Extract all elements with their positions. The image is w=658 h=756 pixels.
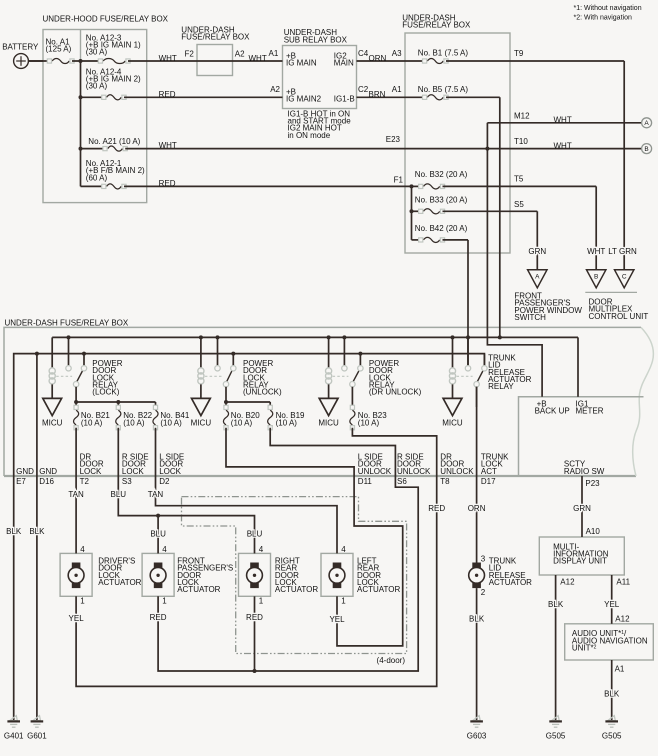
- svg-text:UNLOCK: UNLOCK: [397, 467, 431, 476]
- svg-text:WHT: WHT: [554, 116, 572, 125]
- svg-text:FUSE/RELAY BOX: FUSE/RELAY BOX: [402, 21, 471, 30]
- svg-text:A12: A12: [560, 578, 575, 587]
- svg-text:G505: G505: [602, 732, 622, 741]
- svg-text:No. B1 (7.5 A): No. B1 (7.5 A): [418, 49, 469, 58]
- svg-text:RED: RED: [150, 613, 167, 622]
- svg-text:No. B5 (7.5 A): No. B5 (7.5 A): [418, 85, 469, 94]
- svg-text:A1: A1: [269, 49, 279, 58]
- svg-text:3: 3: [481, 555, 486, 564]
- svg-text:ACTUATOR: ACTUATOR: [98, 578, 141, 587]
- svg-text:E7: E7: [16, 477, 26, 486]
- svg-text:YEL: YEL: [329, 615, 345, 624]
- svg-text:in ON mode: in ON mode: [288, 131, 331, 140]
- svg-text:UNLOCK: UNLOCK: [440, 467, 474, 476]
- svg-text:S6: S6: [397, 477, 407, 486]
- svg-text:A: A: [644, 120, 649, 127]
- svg-text:ACTUATOR: ACTUATOR: [177, 585, 220, 594]
- svg-text:ACTUATOR: ACTUATOR: [357, 585, 400, 594]
- svg-text:G601: G601: [27, 732, 47, 741]
- svg-text:(10 A): (10 A): [358, 419, 380, 428]
- svg-text:D11: D11: [358, 477, 373, 486]
- svg-text:F2: F2: [185, 49, 195, 58]
- svg-text:BLK: BLK: [548, 600, 564, 609]
- svg-text:ACTUATOR: ACTUATOR: [275, 585, 318, 594]
- svg-text:BRN: BRN: [369, 90, 386, 99]
- svg-text:2: 2: [481, 588, 486, 597]
- svg-text:WHT: WHT: [554, 141, 572, 150]
- svg-text:C2: C2: [358, 85, 369, 94]
- svg-text:C4: C4: [358, 49, 369, 58]
- svg-text:E23: E23: [386, 135, 401, 144]
- svg-text:G505: G505: [546, 732, 566, 741]
- svg-text:GND: GND: [39, 467, 57, 476]
- svg-text:METER: METER: [576, 407, 604, 416]
- svg-text:A2: A2: [270, 85, 280, 94]
- svg-text:TAN: TAN: [148, 490, 164, 499]
- svg-text:BLU: BLU: [247, 530, 263, 539]
- svg-text:MICU: MICU: [442, 419, 463, 428]
- svg-text:B: B: [594, 273, 598, 280]
- svg-text:(10 A): (10 A): [160, 419, 182, 428]
- svg-text:BLK: BLK: [604, 690, 620, 699]
- svg-text:1: 1: [162, 597, 167, 606]
- svg-text:LOCK: LOCK: [80, 467, 102, 476]
- svg-text:GRN: GRN: [528, 247, 546, 256]
- svg-text:G401: G401: [4, 732, 24, 741]
- svg-text:WHT: WHT: [159, 141, 177, 150]
- svg-text:4: 4: [80, 545, 85, 554]
- svg-text:ORN: ORN: [369, 54, 387, 63]
- svg-text:BLU: BLU: [111, 490, 127, 499]
- svg-text:GND: GND: [16, 467, 34, 476]
- svg-text:RED: RED: [159, 90, 176, 99]
- svg-text:BLK: BLK: [6, 527, 22, 536]
- svg-text:BLK: BLK: [29, 527, 45, 536]
- svg-text:IG MAIN2: IG MAIN2: [286, 95, 322, 104]
- svg-text:RED: RED: [159, 179, 176, 188]
- svg-text:P23: P23: [585, 479, 600, 488]
- svg-text:MICU: MICU: [318, 419, 339, 428]
- svg-text:1: 1: [259, 597, 264, 606]
- svg-text:4: 4: [341, 545, 346, 554]
- svg-text:MAIN: MAIN: [334, 59, 354, 68]
- svg-text:BACK UP: BACK UP: [535, 407, 570, 416]
- svg-text:T2: T2: [80, 477, 90, 486]
- svg-text:(30 A): (30 A): [86, 82, 108, 91]
- svg-text:(10 A): (10 A): [81, 419, 103, 428]
- svg-text:4: 4: [259, 545, 264, 554]
- svg-text:T9: T9: [514, 49, 524, 58]
- svg-text:WHT: WHT: [587, 247, 605, 256]
- svg-text:IG MAIN: IG MAIN: [286, 59, 317, 68]
- svg-text:D17: D17: [481, 477, 496, 486]
- svg-text:A: A: [535, 273, 540, 280]
- svg-text:No. B33 (20 A): No. B33 (20 A): [415, 196, 468, 205]
- svg-text:LOCK: LOCK: [122, 467, 144, 476]
- svg-text:MICU: MICU: [191, 419, 212, 428]
- svg-text:SWITCH: SWITCH: [514, 313, 546, 322]
- svg-text:RED: RED: [428, 504, 445, 513]
- svg-text:C: C: [622, 273, 627, 280]
- svg-text:(60 A): (60 A): [86, 173, 108, 182]
- svg-text:D16: D16: [39, 477, 54, 486]
- svg-text:*2: With navigation: *2: With navigation: [574, 15, 632, 22]
- svg-text:LOCK: LOCK: [159, 467, 181, 476]
- svg-text:A12: A12: [615, 615, 630, 624]
- svg-text:F1: F1: [394, 175, 404, 184]
- svg-text:4: 4: [162, 545, 167, 554]
- svg-text:(4-door): (4-door): [377, 656, 406, 665]
- svg-text:A1: A1: [615, 665, 625, 674]
- svg-text:T8: T8: [440, 477, 450, 486]
- svg-text:LT GRN: LT GRN: [608, 247, 637, 256]
- svg-text:BATTERY: BATTERY: [2, 43, 39, 52]
- svg-text:A1: A1: [392, 85, 402, 94]
- svg-text:MICU: MICU: [42, 419, 63, 428]
- svg-text:A2: A2: [235, 49, 245, 58]
- svg-text:IG1-B: IG1-B: [334, 94, 355, 103]
- svg-text:TAN: TAN: [68, 490, 84, 499]
- svg-text:A3: A3: [392, 49, 402, 58]
- svg-text:No. B42 (20 A): No. B42 (20 A): [415, 224, 468, 233]
- svg-text:BLK: BLK: [469, 615, 485, 624]
- svg-text:*1: Without navigation: *1: Without navigation: [574, 5, 642, 12]
- svg-text:(10 A): (10 A): [123, 419, 145, 428]
- svg-text:(UNLOCK): (UNLOCK): [243, 388, 282, 397]
- svg-text:No. B32 (20 A): No. B32 (20 A): [415, 170, 468, 179]
- svg-text:S5: S5: [514, 200, 524, 209]
- svg-text:BLU: BLU: [150, 530, 166, 539]
- svg-text:No. A21 (10 A): No. A21 (10 A): [88, 137, 140, 146]
- svg-text:DISPLAY UNIT: DISPLAY UNIT: [553, 557, 607, 566]
- svg-text:RELAY: RELAY: [488, 382, 514, 391]
- svg-text:(10 A): (10 A): [276, 419, 298, 428]
- svg-text:B: B: [644, 146, 648, 153]
- svg-text:RADIO SW: RADIO SW: [564, 467, 605, 476]
- svg-text:ACT: ACT: [481, 467, 497, 476]
- svg-text:1: 1: [341, 597, 346, 606]
- svg-text:ACTUATOR: ACTUATOR: [489, 578, 532, 587]
- svg-text:RED: RED: [246, 613, 263, 622]
- svg-text:A11: A11: [616, 578, 630, 587]
- svg-text:UNIT*2: UNIT*2: [572, 644, 597, 653]
- svg-text:SUB RELAY BOX: SUB RELAY BOX: [284, 35, 348, 44]
- svg-text:CONTROL UNIT: CONTROL UNIT: [589, 312, 649, 321]
- svg-text:S3: S3: [122, 477, 132, 486]
- svg-text:WHT: WHT: [159, 54, 177, 63]
- svg-text:UNLOCK: UNLOCK: [358, 467, 392, 476]
- svg-text:1: 1: [80, 597, 85, 606]
- svg-text:T10: T10: [514, 137, 528, 146]
- svg-text:(DR UNLOCK): (DR UNLOCK): [369, 388, 422, 397]
- svg-text:ORN: ORN: [468, 504, 486, 513]
- svg-text:UNDER-HOOD FUSE/RELAY BOX: UNDER-HOOD FUSE/RELAY BOX: [43, 15, 169, 24]
- svg-text:FUSE/RELAY BOX: FUSE/RELAY BOX: [181, 33, 250, 42]
- svg-text:GRN: GRN: [573, 504, 591, 513]
- svg-text:(10 A): (10 A): [231, 419, 253, 428]
- svg-text:A10: A10: [586, 527, 601, 536]
- svg-text:(30 A): (30 A): [86, 48, 108, 57]
- svg-text:D2: D2: [159, 477, 170, 486]
- svg-text:(LOCK): (LOCK): [92, 388, 119, 397]
- svg-text:G603: G603: [467, 732, 487, 741]
- svg-text:(125 A): (125 A): [46, 45, 72, 54]
- svg-text:M12: M12: [514, 111, 530, 120]
- svg-text:WHT: WHT: [249, 54, 267, 63]
- svg-text:YEL: YEL: [69, 614, 85, 623]
- svg-text:UNDER-DASH FUSE/RELAY BOX: UNDER-DASH FUSE/RELAY BOX: [5, 318, 129, 327]
- svg-text:T5: T5: [514, 175, 524, 184]
- svg-text:YEL: YEL: [604, 600, 620, 609]
